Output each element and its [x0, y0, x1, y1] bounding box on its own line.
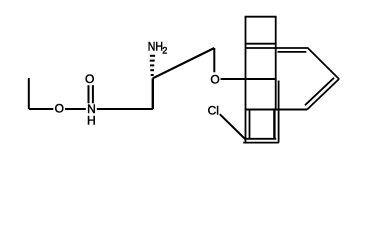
svg-text:2: 2	[162, 46, 167, 56]
bond O-C aryl horizontal	[221, 78, 277, 80]
ring inner top horizontal	[278, 51, 307, 53]
ring bond bottom-right diagonal	[307, 79, 339, 110]
double bond N=O line a	[88, 85, 90, 103]
svg-text:H: H	[87, 113, 96, 127]
bond C-Cl	[220, 114, 245, 138]
ring bond outer bottom horizontal	[243, 142, 279, 144]
ring bond vertical right upper	[275, 17, 277, 111]
bond CH2-O ester	[29, 108, 54, 110]
svg-text:Cl: Cl	[208, 104, 219, 118]
ring bond square bottom horizontal	[246, 43, 277, 45]
bond CH-CH2 diagonal	[153, 48, 215, 78]
ring inner bottom-right diagonal	[305, 78, 334, 105]
bond ethyl CH3-CH2	[28, 78, 30, 109]
ring inner bottom horizontal	[244, 138, 276, 140]
ring inner vertical left lower	[249, 110, 251, 139]
bond O-N	[65, 108, 86, 110]
ring bond vertical left long	[245, 17, 247, 143]
hashed wedge bond C-NH2	[150, 56, 155, 75]
atom label NH2	[148, 41, 163, 54]
ring bond hexagon top horizontal + top-right diagonal	[246, 48, 340, 79]
svg-text:NH: NH	[148, 41, 163, 54]
svg-text:O: O	[210, 72, 219, 86]
bond CH2-CH stereocenter	[152, 78, 154, 109]
ring bond mid horizontal	[246, 109, 308, 111]
double bond N=O line b	[92, 85, 94, 103]
ring inner vertical right long	[278, 81, 280, 143]
svg-text:O: O	[85, 72, 94, 86]
bond N-CH2	[97, 108, 153, 110]
svg-text:O: O	[55, 102, 64, 116]
bond CH2-O aryl ether vertical	[213, 48, 215, 72]
ring bond top horizontal	[245, 16, 277, 18]
ring inner vertical right lower	[273, 110, 275, 139]
